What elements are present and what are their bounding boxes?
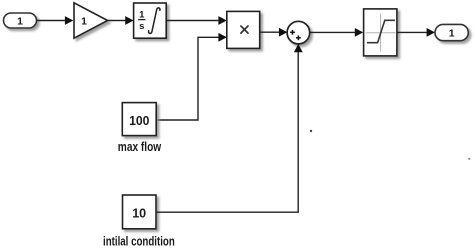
- svg-text:100: 100: [129, 113, 149, 128]
- constant block 10: [123, 195, 157, 229]
- arrowhead into Gain: [65, 16, 73, 25]
- integrator block U1: [134, 3, 167, 38]
- wire Saturation to Out1: [397, 31, 428, 33]
- wire In1 to Gain: [37, 20, 66, 22]
- saturation curve: [367, 20, 395, 42]
- arrowhead into Saturation: [355, 28, 363, 37]
- saturation x-axis (gray): [366, 32, 396, 34]
- wire Integrator to Product input 1: [166, 20, 219, 22]
- arrowhead into Out1: [427, 28, 435, 37]
- saturation block: [364, 9, 397, 56]
- gain block: [74, 3, 108, 38]
- constant block 100: [122, 103, 156, 136]
- svg-text:1: 1: [17, 16, 23, 28]
- inport In1: [4, 13, 37, 28]
- arrowhead into Sum bottom: [294, 44, 303, 52]
- svg-text:s: s: [139, 21, 144, 32]
- arrowhead into Sum left: [279, 28, 287, 37]
- stray dot: [310, 130, 312, 132]
- sum plus sign left: [290, 30, 295, 35]
- wire Gain to Integrator: [108, 20, 127, 22]
- wire Constant100 to corner: [156, 37, 219, 120]
- product multiply symbol: [241, 26, 248, 33]
- arrowhead into Product input 2: [218, 33, 226, 42]
- arrowhead into Integrator: [125, 16, 133, 25]
- wire Sum to Saturation: [310, 31, 356, 33]
- integrator integral sign: [149, 8, 160, 34]
- faint stray dot right: [468, 158, 470, 160]
- svg-text:1: 1: [81, 16, 87, 28]
- wire Product to Sum: [260, 31, 280, 33]
- svg-text:1: 1: [449, 28, 455, 40]
- svg-text:10: 10: [132, 206, 146, 221]
- svg-text:max flow: max flow: [118, 139, 162, 154]
- product block: [227, 11, 260, 48]
- integrator fraction bar: [138, 19, 145, 21]
- sum plus sign bottom: [296, 35, 301, 40]
- svg-text:intilal condition: intilal condition: [103, 234, 175, 249]
- wire Constant10 to Sum bottom: [156, 51, 298, 212]
- sum block: [287, 21, 310, 44]
- arrowhead into Product input 1: [218, 16, 226, 25]
- outport Out1: [435, 24, 468, 40]
- saturation y-axis (gray): [380, 14, 382, 52]
